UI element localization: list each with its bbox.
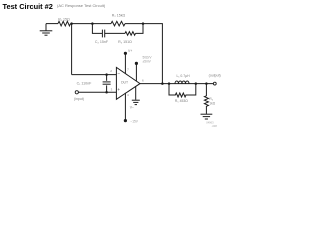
- terminal pin 8: [135, 62, 138, 65]
- wire (non-inverting input lead): [78, 91, 116, 93]
- svg-text:(output): (output): [209, 74, 221, 78]
- output terminal: [213, 82, 216, 85]
- node X (junction to inverting input line): [70, 22, 73, 25]
- input terminal: [75, 91, 78, 94]
- resistor R3: [125, 32, 136, 36]
- svg-text:+: +: [117, 87, 120, 92]
- wire (V+ pin): [124, 54, 126, 74]
- svg-text:±5mV: ±5mV: [143, 60, 152, 64]
- node (C1 top junction): [105, 73, 108, 76]
- wire (V- pin): [124, 93, 126, 120]
- svg-text:V+: V+: [128, 49, 132, 53]
- svg-text:R₂ 15kΩ: R₂ 15kΩ: [112, 14, 126, 18]
- resistor R2: [111, 21, 125, 26]
- capacitor C1: [103, 75, 111, 93]
- svg-text:R₅ 453Ω: R₅ 453Ω: [175, 99, 188, 103]
- op-amp U1 (DUT): [116, 67, 140, 99]
- wire (ground to R1): [46, 23, 58, 25]
- wire (node B to feedback drop): [125, 24, 162, 84]
- svg-text:-038: -038: [212, 124, 218, 128]
- svg-text:−: −: [117, 71, 120, 76]
- wire (inverting input lead): [72, 74, 117, 76]
- inductor L1: [175, 81, 189, 84]
- svg-text:DUT: DUT: [121, 80, 128, 84]
- node (R6 junction): [205, 82, 208, 85]
- wire (R3 up to node B): [136, 24, 144, 34]
- node A (junction to RC branch): [91, 22, 94, 25]
- wire (pin 8 riser): [135, 64, 137, 81]
- node (L/R left): [168, 82, 171, 85]
- ground (load): [201, 114, 213, 119]
- terminal V+: [124, 52, 127, 55]
- svg-text:C₂ 15nF: C₂ 15nF: [95, 40, 109, 44]
- svg-text:V−: V−: [130, 105, 134, 109]
- svg-text:L₁ 0.7µH: L₁ 0.7µH: [176, 74, 190, 78]
- svg-text:C₁ 110nF: C₁ 110nF: [77, 82, 93, 86]
- svg-text:1kΩ: 1kΩ: [209, 102, 215, 106]
- capacitor C2: [102, 30, 104, 38]
- node (feedback to output): [161, 82, 164, 85]
- wire (R1 to R2): [71, 23, 112, 25]
- wire (node X down to inverting input): [71, 24, 73, 75]
- svg-text:Test Circuit #2: Test Circuit #2: [3, 2, 53, 11]
- svg-text:R₁ 15Ω: R₁ 15Ω: [58, 17, 70, 21]
- node B (feedback junction): [142, 22, 145, 25]
- svg-text:(AC Response Test Circuit): (AC Response Test Circuit): [57, 3, 106, 8]
- ground (op-amp): [132, 100, 140, 104]
- svg-text:04963: 04963: [206, 120, 214, 124]
- wire (node A down to RC branch): [92, 24, 102, 34]
- ground (left input ground): [40, 24, 53, 36]
- wire (C2 to R3): [105, 32, 125, 34]
- node (C1 bottom junction): [105, 91, 108, 94]
- svg-text:−15V: −15V: [130, 120, 138, 124]
- node (L/R right): [195, 82, 198, 85]
- resistor R6: [204, 84, 208, 114]
- wire (output lead): [140, 83, 214, 85]
- svg-text:R₃ 151Ω: R₃ 151Ω: [118, 40, 132, 44]
- terminal V-: [124, 119, 127, 122]
- svg-text:(input): (input): [74, 97, 84, 101]
- resistor R1: [58, 21, 71, 26]
- wire (pin 5 to ground): [135, 86, 137, 100]
- resistor R5 (parallel with L1): [169, 84, 196, 97]
